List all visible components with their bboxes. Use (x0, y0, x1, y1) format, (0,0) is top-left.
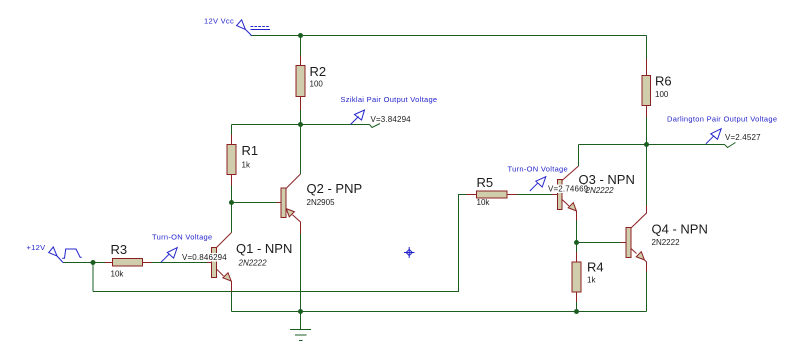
svg-text:R5: R5 (477, 175, 494, 190)
svg-text:Turn-ON Voltage: Turn-ON Voltage (152, 233, 213, 242)
svg-text:R4: R4 (587, 260, 604, 275)
svg-text:+12V: +12V (27, 243, 46, 252)
svg-text:Q1 - NPN: Q1 - NPN (236, 241, 292, 256)
svg-text:Darlington Pair Output Voltage: Darlington Pair Output Voltage (667, 115, 777, 124)
svg-text:V=3.84294: V=3.84294 (371, 115, 412, 124)
svg-text:10k: 10k (477, 198, 491, 207)
svg-text:1k: 1k (242, 161, 251, 170)
svg-text:100: 100 (655, 90, 669, 99)
svg-text:Turn-ON Voltage: Turn-ON Voltage (508, 165, 569, 174)
svg-text:10k: 10k (111, 270, 125, 279)
svg-text:V=2.4527: V=2.4527 (725, 133, 761, 142)
svg-text:100: 100 (310, 80, 324, 89)
svg-text:R1: R1 (242, 143, 259, 158)
svg-text:R3: R3 (111, 242, 128, 257)
svg-text:V=2.74669: V=2.74669 (548, 185, 589, 194)
svg-text:2N2905: 2N2905 (307, 198, 336, 207)
svg-text:R2: R2 (310, 64, 327, 79)
svg-text:12V Vcc: 12V Vcc (204, 17, 234, 26)
svg-text:1k: 1k (587, 276, 596, 285)
svg-text:Q4 - NPN: Q4 - NPN (652, 222, 708, 237)
svg-text:R6: R6 (655, 74, 672, 89)
svg-text:2N2222: 2N2222 (652, 238, 681, 247)
svg-text:V=0.846294: V=0.846294 (182, 253, 227, 262)
svg-text:2N2222: 2N2222 (585, 186, 615, 195)
svg-text:2N2222: 2N2222 (238, 259, 268, 268)
svg-text:Sziklai Pair Output Voltage: Sziklai Pair Output Voltage (341, 95, 438, 104)
svg-text:Q2 - PNP: Q2 - PNP (307, 181, 363, 196)
